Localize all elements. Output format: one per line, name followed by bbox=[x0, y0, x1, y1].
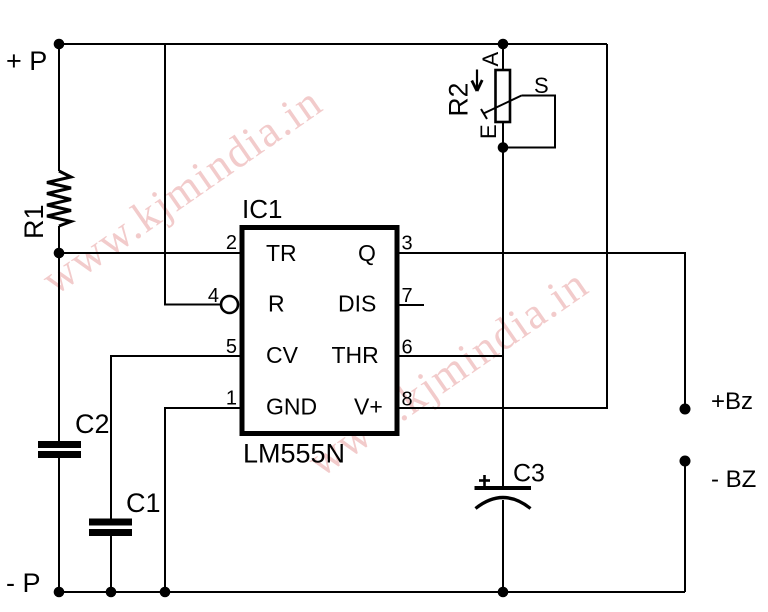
svg-text:+ P: + P bbox=[6, 46, 47, 76]
node bottom-left dot bbox=[54, 587, 65, 598]
svg-text:C2: C2 bbox=[75, 409, 110, 439]
svg-text:IC1: IC1 bbox=[242, 194, 282, 224]
wire C3 to bottom rail bbox=[502, 500, 504, 592]
node R2 bottom junction dot bbox=[498, 142, 509, 153]
wire left rail mid segment bbox=[58, 226, 60, 441]
resistor R2 (preset) body bbox=[496, 70, 511, 122]
svg-text:CV: CV bbox=[266, 342, 299, 368]
C3 plus sign bbox=[479, 475, 490, 486]
resistor R1 bbox=[47, 171, 71, 226]
svg-text:3: 3 bbox=[402, 233, 413, 255]
capacitor C2 bbox=[38, 445, 81, 455]
svg-text:A: A bbox=[478, 52, 503, 67]
capacitor C3 bottom plate (arc) bbox=[476, 498, 531, 509]
svg-text:5: 5 bbox=[226, 336, 237, 358]
node R1/TR junction dot bbox=[54, 248, 65, 259]
wire GND (pin1) bbox=[165, 408, 240, 592]
capacitor C3 top plate bbox=[475, 486, 532, 490]
R2 wiper tail tick bbox=[481, 109, 487, 119]
wire Q (pin3) to +Bz bbox=[399, 253, 685, 409]
node C3 bottom dot bbox=[498, 587, 509, 598]
svg-text:7: 7 bbox=[402, 285, 413, 307]
node +Bz terminal dot bbox=[680, 404, 691, 415]
wire R2 to C3 bbox=[502, 122, 504, 486]
svg-text:2: 2 bbox=[226, 232, 237, 254]
wire DIS stub (pin7) bbox=[399, 304, 424, 306]
wire -BZ to bottom rail bbox=[684, 461, 686, 592]
wire top rail bbox=[59, 43, 607, 45]
capacitor C1 bbox=[89, 522, 132, 533]
wire C1 to bottom rail bbox=[110, 536, 112, 592]
svg-text:GND: GND bbox=[266, 394, 317, 420]
svg-text:1: 1 bbox=[226, 388, 237, 410]
svg-text:V+: V+ bbox=[354, 394, 383, 420]
svg-text:DIS: DIS bbox=[338, 291, 376, 317]
svg-text:R1: R1 bbox=[19, 204, 49, 239]
R2 adjust arrow bbox=[472, 70, 482, 92]
svg-text:E: E bbox=[476, 124, 501, 139]
node GND bottom dot bbox=[160, 587, 171, 598]
IC IC1 LM555N box bbox=[242, 228, 397, 434]
wire reset (pin4) from top rail bbox=[165, 44, 221, 305]
R2 wiper diagonal bbox=[484, 96, 522, 114]
wire CV (pin5) bbox=[111, 356, 240, 519]
svg-text:THR: THR bbox=[332, 342, 379, 368]
svg-text:4: 4 bbox=[208, 285, 219, 307]
svg-text:C3: C3 bbox=[513, 460, 545, 488]
svg-text:C1: C1 bbox=[126, 488, 161, 518]
svg-text:+Bz: +Bz bbox=[711, 388, 753, 415]
svg-text:- P: - P bbox=[6, 568, 41, 598]
svg-text:R: R bbox=[268, 291, 285, 317]
wire S (wiper) loop bbox=[503, 96, 555, 148]
wire bottom rail bbox=[59, 591, 685, 593]
node +P junction dot bbox=[54, 39, 65, 50]
wire R2 top lead bbox=[502, 44, 504, 70]
svg-text:Q: Q bbox=[358, 240, 376, 266]
wire TR (pin2) bbox=[59, 252, 240, 254]
pin 4 bubble bbox=[221, 296, 238, 313]
node C1 bottom dot bbox=[106, 587, 117, 598]
svg-text:- BZ: - BZ bbox=[711, 466, 756, 493]
node -BZ terminal dot bbox=[680, 456, 691, 467]
svg-text:S: S bbox=[534, 73, 549, 98]
svg-text:LM555N: LM555N bbox=[243, 439, 345, 469]
wire left rail lower segment bbox=[58, 458, 60, 592]
wire V+ (pin8) bbox=[399, 44, 607, 408]
wire left rail upper segment bbox=[58, 44, 60, 171]
svg-text:TR: TR bbox=[266, 240, 297, 266]
node R2 top junction dot bbox=[498, 39, 509, 50]
svg-text:R2: R2 bbox=[444, 83, 474, 117]
wire THR (pin6) bbox=[399, 355, 504, 357]
